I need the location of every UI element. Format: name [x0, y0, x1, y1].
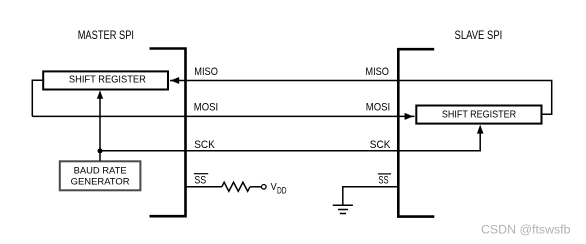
svg-text:SS: SS: [194, 175, 206, 187]
svg-text:SCK: SCK: [370, 139, 391, 151]
shift register U2 (slave): [416, 106, 541, 124]
VDD open terminal: [262, 185, 267, 190]
label SS-bar (slave side) overline: [378, 173, 391, 175]
svg-text:DD: DD: [277, 185, 287, 196]
wire MISO: [170, 81, 552, 115]
master device bracket: [150, 49, 186, 217]
wire master shift register output to MOSI: [32, 80, 42, 116]
arrowhead SCK into slave shift register: [477, 125, 484, 134]
wire resistor to VDD terminal: [250, 186, 261, 188]
svg-text:MASTER SPI: MASTER SPI: [78, 29, 134, 42]
baud rate generator: [60, 161, 141, 190]
arrowhead MISO into master shift register: [171, 77, 180, 84]
svg-text:SHIFT REGISTER: SHIFT REGISTER: [69, 74, 146, 85]
junction dot SCK node: [98, 148, 103, 153]
wire slave SS to ground: [343, 187, 399, 205]
svg-text:SS: SS: [378, 175, 388, 187]
svg-text:SLAVE SPI: SLAVE SPI: [455, 29, 503, 42]
arrowhead MOSI into slave shift register: [405, 113, 414, 120]
svg-text:MISO: MISO: [194, 66, 218, 78]
label SS-bar (master side) overline: [194, 173, 208, 175]
wire MOSI: [32, 115, 414, 117]
svg-text:SCK: SCK: [194, 139, 215, 151]
arrowhead clock into master shift register: [97, 91, 103, 99]
svg-text:MOSI: MOSI: [366, 102, 390, 114]
ground: [333, 205, 353, 213]
svg-text:MISO: MISO: [365, 66, 389, 78]
svg-text:SHIFT REGISTER: SHIFT REGISTER: [442, 110, 516, 121]
svg-text:V: V: [271, 182, 277, 193]
slave device bracket: [398, 49, 434, 216]
resistor R1 SS pull-up: [222, 182, 250, 191]
wire SCK: [100, 126, 480, 151]
shift register U1 (master): [43, 71, 168, 89]
svg-text:GENERATOR: GENERATOR: [71, 177, 130, 187]
svg-text:BAUD RATE: BAUD RATE: [74, 166, 127, 176]
svg-text:MOSI: MOSI: [194, 102, 218, 114]
svg-text:CSDN @ftswsfb: CSDN @ftswsfb: [481, 222, 571, 236]
wire SS to pull-up resistor: [186, 186, 222, 188]
wire baud rate generator to master shift register clock: [99, 92, 101, 161]
